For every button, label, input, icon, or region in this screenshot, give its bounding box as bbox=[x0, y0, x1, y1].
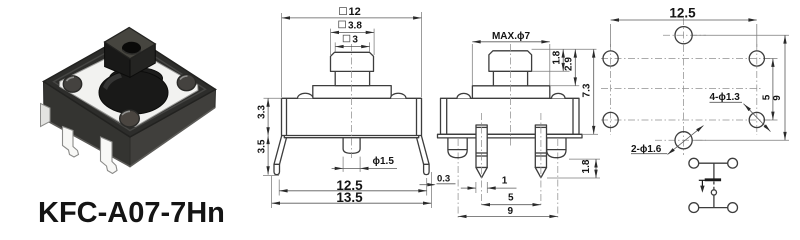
photo: switch body right side face bbox=[130, 90, 216, 167]
pcb layout centerline horizontal top row bbox=[601, 58, 770, 60]
side view stem bbox=[493, 71, 527, 86]
photo: stem hole bbox=[122, 42, 141, 54]
side view left pin bbox=[476, 125, 487, 178]
dimension 1 pin width bbox=[461, 176, 517, 193]
schematic bottom-left terminal bbox=[689, 203, 699, 213]
pcb layout centerline vertical middle bbox=[683, 18, 685, 155]
pcb layout centerline horizontal middle bbox=[601, 88, 762, 90]
side view right boss centerline bbox=[557, 139, 559, 220]
svg-text:9: 9 bbox=[772, 95, 783, 101]
svg-text:2-ϕ1.6: 2-ϕ1.6 bbox=[631, 144, 662, 155]
dimension 0.3 bbox=[420, 174, 456, 187]
front view left leg bbox=[274, 136, 287, 175]
side view right boss bbox=[547, 138, 566, 158]
dimension 7.3 bbox=[582, 49, 599, 134]
schematic bottom-right terminal bbox=[728, 203, 738, 213]
photo: top rim inner bevel bbox=[54, 40, 206, 131]
svg-text:1.8: 1.8 bbox=[581, 159, 592, 173]
schematic movable contact circle bbox=[711, 190, 716, 195]
side view right pin bbox=[535, 125, 546, 178]
front view pedestal bbox=[313, 86, 391, 99]
pcb hole top-left phi1.3 bbox=[603, 51, 618, 66]
side view cap bbox=[489, 51, 532, 72]
photo: rivet right bbox=[177, 74, 195, 90]
side view pedestal bbox=[472, 86, 549, 99]
dimension phi-1.5 bbox=[332, 156, 397, 172]
schematic upper stem wire bbox=[713, 163, 715, 178]
photo: pin left-back bbox=[41, 104, 51, 127]
side view right pin centerline bbox=[540, 113, 542, 208]
dimension square-3.8 bbox=[331, 20, 375, 55]
svg-text:MAX.ϕ7: MAX.ϕ7 bbox=[492, 31, 530, 42]
dimension 1.8 top bbox=[532, 49, 597, 71]
schematic top-right terminal bbox=[728, 158, 738, 168]
dimension square-3 bbox=[335, 34, 369, 51]
dimension 13.5 front bbox=[272, 172, 432, 208]
photo: rivet front bbox=[120, 110, 140, 127]
svg-text:1: 1 bbox=[502, 176, 508, 187]
svg-text:5: 5 bbox=[508, 192, 514, 203]
pcb layout centerline horizontal bottom row bbox=[601, 119, 770, 121]
label 4-phi1.3 with leader bbox=[710, 92, 771, 132]
photo: rivet left bbox=[63, 76, 81, 92]
svg-text:3.8: 3.8 bbox=[348, 20, 362, 31]
schematic lower stem wire bbox=[713, 195, 715, 208]
svg-text:9: 9 bbox=[508, 206, 514, 217]
photo: pin front-left bbox=[63, 127, 79, 158]
dimension square-12 bbox=[282, 6, 422, 97]
photo: pin front-center bbox=[101, 137, 118, 174]
side view body outline bbox=[441, 98, 580, 134]
pcb hole bottom-left phi1.3 bbox=[603, 112, 618, 127]
svg-text:12.5: 12.5 bbox=[669, 6, 696, 21]
dimension 3.3 bbox=[257, 98, 282, 136]
svg-text:0.3: 0.3 bbox=[437, 174, 450, 185]
svg-text:4-ϕ1.3: 4-ϕ1.3 bbox=[710, 92, 741, 103]
front view base plate bbox=[284, 136, 418, 138]
dimension MAX phi-7 bbox=[472, 31, 550, 85]
schematic fixed contact bar bbox=[705, 178, 721, 181]
pcb layout centerline vertical right column bbox=[756, 44, 758, 135]
svg-text:KFC-A07-7Hn: KFC-A07-7Hn bbox=[38, 197, 225, 228]
side view left pin centerline bbox=[481, 113, 483, 208]
side view left dome bump bbox=[457, 93, 471, 98]
dimension 9 side bbox=[458, 206, 558, 218]
photo: switch body top rim bbox=[44, 34, 216, 138]
pcb hole top-right phi1.3 bbox=[749, 51, 764, 66]
front view right dome bump bbox=[391, 93, 407, 98]
side view left boss bbox=[448, 138, 467, 158]
photo: switch body left side face bbox=[44, 82, 131, 167]
schematic actuation arrow bbox=[699, 180, 709, 193]
pcb hole top-center phi1.6 bbox=[675, 27, 692, 44]
photo: stem top face bbox=[105, 28, 156, 59]
photo: rivet left highlight bbox=[67, 77, 75, 81]
photo: white top plate bbox=[60, 49, 198, 126]
photo: stem hole inner shade bbox=[123, 50, 141, 54]
photo: pedestal neck drum bbox=[110, 68, 163, 90]
photo: rivet right highlight bbox=[180, 76, 188, 80]
schematic movable contact dashed wire bbox=[713, 182, 715, 190]
dimension 5 pcb bbox=[762, 59, 778, 121]
photo: rivet front highlight bbox=[122, 111, 130, 115]
pcb layout centerline vertical left column bbox=[610, 44, 612, 135]
schematic bottom wire bbox=[699, 207, 729, 209]
photo: pedestal round base bbox=[99, 71, 168, 114]
svg-text:1.8: 1.8 bbox=[552, 50, 563, 64]
svg-text:3.3: 3.3 bbox=[257, 105, 268, 119]
dimension 1.8 bottom bbox=[547, 159, 600, 178]
front view left dome bump bbox=[298, 93, 314, 98]
photo: stem right face bbox=[130, 44, 155, 77]
schematic top-left terminal bbox=[689, 158, 699, 168]
dimension 5 side bbox=[482, 192, 541, 206]
side view left boss centerline bbox=[457, 139, 459, 220]
pcb layout centerline horizontal bottom phi1.6 bbox=[655, 139, 706, 141]
svg-text:3: 3 bbox=[352, 34, 358, 45]
label 2-phi1.6 with leader bbox=[631, 126, 704, 155]
front view body outline bbox=[282, 98, 422, 135]
front view cap bbox=[331, 52, 374, 71]
front view center post bbox=[343, 138, 360, 154]
front view right leg bbox=[417, 136, 430, 175]
side view right dome bump bbox=[552, 93, 566, 98]
photo: stem left face bbox=[105, 42, 130, 77]
dimension 12.5 pcb bbox=[611, 6, 757, 47]
front view centerline bbox=[351, 44, 353, 158]
dimension 2.9 bbox=[550, 49, 579, 86]
photo: body bottom edge highlight bbox=[44, 108, 215, 167]
dimension 3.5 bbox=[257, 136, 280, 176]
svg-text:7.3: 7.3 bbox=[582, 83, 593, 97]
front view stem bbox=[335, 71, 369, 85]
svg-text:12: 12 bbox=[349, 6, 361, 18]
schematic top wire bbox=[699, 162, 729, 164]
dimension 12.5 front bbox=[279, 178, 427, 196]
svg-text:3.5: 3.5 bbox=[257, 139, 268, 153]
dimension 9 pcb bbox=[693, 35, 789, 140]
svg-text:5: 5 bbox=[762, 94, 773, 100]
pcb hole bottom-right phi1.3 bbox=[749, 112, 764, 127]
pcb layout centerline horizontal top phi1.6 bbox=[663, 34, 706, 36]
side view base plate bbox=[438, 134, 583, 138]
photo: pedestal highlight bbox=[103, 73, 122, 90]
svg-text:2.9: 2.9 bbox=[564, 57, 575, 71]
svg-text:ϕ1.5: ϕ1.5 bbox=[373, 156, 395, 167]
svg-text:13.5: 13.5 bbox=[336, 190, 363, 205]
pcb hole bottom-center phi1.6 bbox=[675, 132, 692, 149]
side view centerline bbox=[510, 44, 512, 146]
